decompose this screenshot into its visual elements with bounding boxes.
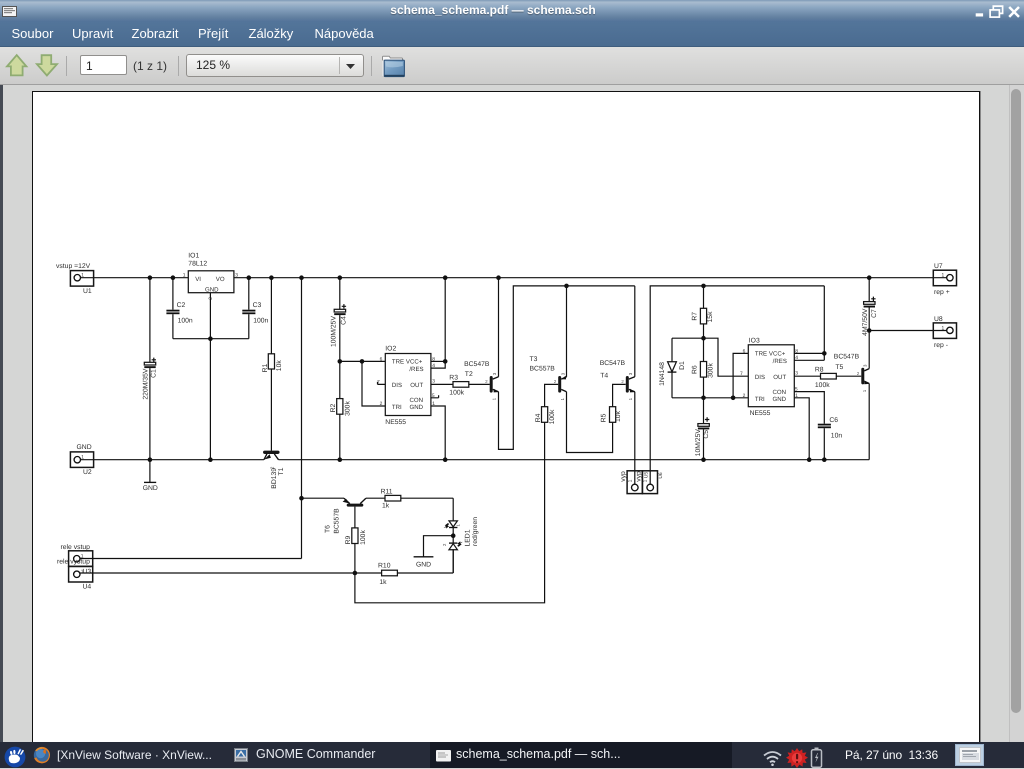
svg-text:T4: T4 bbox=[600, 372, 608, 379]
svg-text:3: 3 bbox=[560, 372, 565, 375]
wire IO1 pin2 down to GND rail bbox=[209, 293, 211, 460]
capacitor C1 220M/35V electrolytic bbox=[143, 278, 158, 460]
resistor R2 300k bbox=[330, 361, 351, 459]
svg-text:300k: 300k bbox=[707, 363, 714, 378]
svg-text:R11: R11 bbox=[381, 488, 393, 495]
voltage regulator IO1 78L12 bbox=[183, 253, 239, 300]
svg-text:6: 6 bbox=[743, 348, 746, 354]
wire U6 pin up to right sub-rail bbox=[650, 286, 824, 484]
svg-text:IO1: IO1 bbox=[188, 253, 199, 260]
svg-text:3: 3 bbox=[862, 364, 867, 367]
svg-text:TRI: TRI bbox=[392, 404, 402, 411]
wire GND rail right (T1 collector to T5 emitter) bbox=[279, 459, 870, 461]
wire T3 base to R4 bbox=[545, 384, 559, 406]
svg-text:1: 1 bbox=[862, 389, 867, 392]
svg-text:DIS: DIS bbox=[755, 374, 765, 381]
svg-text:GND: GND bbox=[773, 396, 787, 403]
svg-text:R2: R2 bbox=[330, 403, 337, 412]
resistor R4 100k bbox=[535, 407, 556, 425]
svg-text:6: 6 bbox=[380, 356, 383, 362]
connector U6 vyp bbox=[636, 471, 664, 494]
junction dot at IO1 pin2 column bbox=[208, 336, 213, 341]
wire U4 to relay sense node bbox=[80, 572, 382, 574]
svg-text:100M/25V: 100M/25V bbox=[331, 316, 338, 347]
wire IO3 pin8 VCC+ to sub-rail bbox=[794, 352, 824, 354]
svg-text:NE555: NE555 bbox=[750, 410, 771, 417]
resistor R3 100k bbox=[449, 375, 490, 397]
wire node to U8 rep- bbox=[869, 330, 947, 332]
svg-text:CON: CON bbox=[410, 397, 424, 404]
wire IO3 pin3 OUT to R8 bbox=[794, 375, 820, 377]
svg-text:R4: R4 bbox=[535, 413, 542, 422]
junction dot pin8/pin4 bbox=[822, 351, 827, 356]
wire IO3 pin1 GND to rail bbox=[794, 398, 809, 460]
svg-text:TRE: TRE bbox=[392, 359, 404, 366]
connector U7 rep + bbox=[933, 263, 956, 296]
timer IO3 NE555 bbox=[740, 338, 798, 418]
svg-text:1: 1 bbox=[627, 479, 633, 482]
svg-text:2: 2 bbox=[208, 297, 214, 300]
svg-text:VCC+: VCC+ bbox=[769, 351, 786, 358]
junction dot R7 column on sub-rail bbox=[701, 284, 706, 289]
svg-text:1k: 1k bbox=[379, 579, 387, 586]
svg-text:R3: R3 bbox=[449, 375, 458, 382]
svg-text:1: 1 bbox=[81, 455, 84, 461]
diode D1 1N4148 bbox=[659, 338, 686, 398]
capacitor C3 100n bbox=[242, 278, 268, 339]
transistor T3 BC557B bbox=[530, 356, 567, 401]
svg-text:GND: GND bbox=[410, 404, 424, 411]
wire IO2 pin1 GND down to GND rail bbox=[431, 406, 445, 460]
svg-text:U8: U8 bbox=[934, 316, 943, 323]
svg-text:100k: 100k bbox=[449, 390, 464, 397]
svg-text:1: 1 bbox=[492, 397, 497, 400]
svg-text:2: 2 bbox=[554, 379, 557, 384]
wire C2/C3 bottoms to IO1 GND pin bbox=[173, 338, 249, 340]
wire IO3 pin5 CON to C6 bbox=[794, 392, 824, 424]
svg-text:U7: U7 bbox=[934, 263, 943, 270]
svg-text:78L12: 78L12 bbox=[188, 260, 207, 267]
IO2 pin5 CON no-connect stub bbox=[431, 395, 439, 398]
svg-text:100k: 100k bbox=[549, 409, 556, 424]
svg-text:vstup =12V: vstup =12V bbox=[56, 263, 91, 270]
wire T6 emitter branch bbox=[302, 497, 345, 499]
svg-text:100k: 100k bbox=[815, 382, 830, 389]
transistor T6 BC557B bbox=[325, 498, 366, 533]
svg-text:rele vystup: rele vystup bbox=[57, 558, 90, 565]
junction dot R7/R6/D1/DIS node bbox=[701, 336, 706, 341]
svg-text:10k: 10k bbox=[276, 360, 283, 372]
svg-text:U6: U6 bbox=[658, 472, 664, 479]
svg-text:1N4148: 1N4148 bbox=[659, 362, 666, 386]
svg-text:NE555: NE555 bbox=[385, 419, 406, 426]
capacitor C7 4M7/50V electrolytic bbox=[862, 278, 878, 336]
wire T4 emitter down to U5 pin bbox=[634, 392, 636, 485]
svg-text:1: 1 bbox=[560, 397, 565, 400]
svg-text:rep +: rep + bbox=[934, 289, 950, 296]
svg-text:GND: GND bbox=[143, 485, 158, 492]
svg-text:3: 3 bbox=[235, 272, 238, 278]
junction dot R9/R10/R4 node bbox=[353, 571, 358, 576]
svg-text:1: 1 bbox=[81, 569, 84, 575]
svg-text:100n: 100n bbox=[253, 317, 268, 324]
svg-text:vyp: vyp bbox=[636, 471, 643, 482]
svg-text:GND: GND bbox=[205, 286, 219, 293]
svg-text:VO: VO bbox=[216, 276, 225, 283]
svg-text:R10: R10 bbox=[378, 563, 391, 570]
wire U3 to +12V vertical bbox=[80, 558, 302, 560]
LED1 red/green dual LED bbox=[442, 498, 479, 573]
transistor T2 BC547B bbox=[464, 361, 498, 400]
svg-text:15k: 15k bbox=[707, 311, 714, 323]
connector U4 rele vystup bbox=[69, 566, 93, 582]
svg-text:1: 1 bbox=[643, 479, 649, 482]
junction dots on GND rail bbox=[148, 457, 827, 462]
resistor R1 10k bbox=[262, 278, 283, 451]
svg-text:vyp: vyp bbox=[620, 471, 627, 482]
junction dot T6 emitter branch bbox=[299, 496, 304, 501]
svg-text:2: 2 bbox=[485, 379, 488, 384]
resistor R8 100k bbox=[815, 367, 861, 389]
wire IO2 pin3 OUT to R3 bbox=[431, 383, 453, 385]
wire GND rail left (U2 to T1 emitter) bbox=[80, 459, 264, 461]
ground symbol GND (below C1) bbox=[143, 460, 158, 492]
svg-text:300k: 300k bbox=[344, 401, 351, 416]
connector U2 GND bbox=[70, 444, 93, 476]
wire T2 collector to +12V rail bbox=[498, 278, 500, 377]
svg-text:IO3: IO3 bbox=[749, 338, 760, 345]
wire DIS node to D1 and IO3 pin7 bbox=[672, 338, 748, 376]
svg-text:2: 2 bbox=[380, 401, 383, 407]
wire TRI net D1/R6/C5 to IO3 pin2 bbox=[672, 397, 748, 399]
junction dot pin8/pin4 tie bbox=[443, 359, 448, 364]
junction dots on top rail bbox=[148, 275, 872, 280]
svg-text:1: 1 bbox=[81, 273, 84, 279]
wire T6 base to R9 bbox=[354, 507, 356, 528]
connector U3 rele vstup bbox=[69, 551, 93, 567]
svg-text:2: 2 bbox=[442, 543, 447, 546]
svg-text:OUT: OUT bbox=[410, 382, 423, 389]
svg-text:VI: VI bbox=[195, 276, 201, 283]
svg-text:2: 2 bbox=[270, 466, 275, 469]
resistor R7 15k bbox=[691, 286, 714, 338]
labels U3/U4 bbox=[57, 544, 91, 591]
svg-text:U5: U5 bbox=[643, 472, 649, 479]
junction dot T3 emitter bbox=[564, 284, 569, 289]
svg-text:GND: GND bbox=[77, 444, 92, 451]
wire T3 collector down and right to R5 bbox=[567, 392, 613, 453]
svg-text:1: 1 bbox=[628, 397, 633, 400]
svg-text:U3: U3 bbox=[83, 568, 92, 575]
svg-text:rele vstup: rele vstup bbox=[61, 544, 91, 551]
resistor R6 300k bbox=[691, 338, 714, 398]
svg-text:220M/35V: 220M/35V bbox=[143, 368, 150, 399]
svg-text:C6: C6 bbox=[829, 417, 838, 424]
ground symbol GND (LED midpoint) bbox=[414, 536, 454, 569]
svg-text:7: 7 bbox=[740, 371, 743, 377]
svg-text:/RES: /RES bbox=[409, 366, 423, 373]
svg-text:10k: 10k bbox=[615, 410, 622, 422]
svg-text:C1: C1 bbox=[150, 369, 157, 378]
svg-text:T2: T2 bbox=[465, 371, 473, 378]
svg-text:10M/25V: 10M/25V bbox=[695, 429, 702, 457]
svg-text:TRE: TRE bbox=[755, 351, 767, 358]
svg-text:U4: U4 bbox=[83, 584, 92, 591]
capacitor C2 100n bbox=[166, 278, 193, 339]
resistor R11 1k bbox=[381, 488, 454, 509]
svg-text:3: 3 bbox=[628, 372, 633, 375]
connector U5 vyp bbox=[620, 471, 649, 494]
svg-text:BC547B: BC547B bbox=[464, 361, 490, 368]
wire T5 collector up to C7/U8 node bbox=[868, 331, 870, 369]
svg-text:C2: C2 bbox=[177, 302, 186, 309]
svg-text:T1: T1 bbox=[278, 467, 285, 475]
svg-text:U1: U1 bbox=[83, 288, 92, 295]
wire T3 emitter up to sub-rail bbox=[566, 286, 568, 377]
wire +12V top rail (U1 to IO1.VI) bbox=[80, 277, 188, 279]
svg-text:R5: R5 bbox=[601, 413, 608, 422]
wire T2 emitter loop to sub-rail bbox=[499, 286, 635, 450]
wire R4 down to relay sense node bbox=[355, 422, 545, 603]
svg-text:2: 2 bbox=[857, 371, 860, 376]
wire IO2 pin2 TRI loop bbox=[362, 361, 385, 406]
svg-text:T6: T6 bbox=[325, 525, 332, 533]
svg-text:VCC+: VCC+ bbox=[406, 359, 423, 366]
wire IO3 pin6 TRE tie to TRI bbox=[733, 353, 748, 397]
wire T4 collector up to sub-rail bbox=[634, 286, 636, 377]
wire +12V vertical to T6/U3 (long) bbox=[301, 278, 303, 559]
svg-text:100k: 100k bbox=[360, 530, 367, 545]
capacitor C6 10n bbox=[818, 417, 843, 460]
svg-text:GND: GND bbox=[416, 562, 431, 569]
svg-text:C4: C4 bbox=[341, 316, 348, 325]
svg-text:R1: R1 bbox=[262, 363, 269, 372]
svg-text:T5: T5 bbox=[835, 364, 843, 371]
svg-text:1: 1 bbox=[456, 524, 461, 527]
junction dot C4/R2/TRE bbox=[338, 359, 343, 364]
wire IO2 pin6 TRE to C4/R2 node bbox=[340, 360, 386, 362]
svg-text:BC557B: BC557B bbox=[334, 508, 341, 534]
svg-text:100n: 100n bbox=[178, 317, 193, 324]
resistor R10 1k bbox=[378, 549, 453, 586]
svg-text:2: 2 bbox=[621, 379, 624, 384]
junction dots on TRI net bbox=[701, 396, 706, 401]
svg-text:10n: 10n bbox=[831, 433, 843, 440]
wire IO2 pin4 /RES up to +12V rail bbox=[431, 278, 445, 368]
svg-text:IO2: IO2 bbox=[385, 346, 396, 353]
wire T5 emitter down to GND rail bbox=[868, 384, 870, 460]
svg-text:1: 1 bbox=[942, 273, 945, 279]
svg-text:R6: R6 bbox=[691, 365, 698, 374]
svg-text:BC547B: BC547B bbox=[600, 360, 626, 367]
resistor R9 100k bbox=[345, 528, 367, 573]
wire T6 collector to R11 bbox=[366, 497, 385, 499]
svg-text:BC547B: BC547B bbox=[834, 354, 860, 361]
wire R5 top to T4 base bbox=[613, 384, 626, 406]
junction dot TRE/TRI tie bbox=[360, 359, 365, 364]
resistor R5 10k bbox=[601, 407, 622, 423]
svg-text:C7: C7 bbox=[871, 309, 878, 318]
svg-text:C5: C5 bbox=[703, 430, 710, 439]
capacitor C4 100M/25V electrolytic bbox=[331, 278, 348, 362]
svg-text:red/green: red/green bbox=[472, 517, 479, 546]
transistor T1 BD139 bbox=[264, 452, 285, 488]
svg-text:TRI: TRI bbox=[755, 396, 765, 403]
svg-text:1k: 1k bbox=[382, 503, 390, 510]
timer IO2 NE555 bbox=[377, 346, 435, 426]
junction dot LED midpoint bbox=[451, 533, 456, 538]
IO2 pin7 DIS no-connect stub bbox=[378, 382, 386, 385]
wire IO3 pin4 /RES tie bbox=[794, 286, 824, 360]
junction dot C7/T5/U8 node bbox=[867, 328, 872, 333]
svg-text:BC557B: BC557B bbox=[530, 366, 556, 373]
svg-text:1: 1 bbox=[183, 272, 186, 278]
svg-text:DIS: DIS bbox=[392, 382, 402, 389]
svg-text:D1: D1 bbox=[679, 361, 686, 370]
svg-text:C3: C3 bbox=[253, 302, 262, 309]
connector U1 vstup =12V bbox=[56, 263, 94, 295]
svg-text:rep -: rep - bbox=[934, 342, 948, 349]
svg-text:R7: R7 bbox=[691, 312, 698, 321]
capacitor C5 10M/25V electrolytic bbox=[695, 398, 710, 460]
svg-text:U2: U2 bbox=[83, 469, 92, 476]
svg-text:3: 3 bbox=[492, 372, 497, 375]
transistor T4 BC547B bbox=[600, 360, 635, 400]
svg-text:CON: CON bbox=[773, 389, 787, 396]
wire IO2 pin8 VCC+ bbox=[431, 360, 445, 362]
svg-text:R9: R9 bbox=[345, 535, 352, 544]
svg-text:1: 1 bbox=[942, 325, 945, 331]
svg-text:/RES: /RES bbox=[773, 358, 787, 365]
connector U8 rep - bbox=[933, 316, 956, 349]
svg-text:LED1: LED1 bbox=[464, 529, 471, 546]
svg-text:R8: R8 bbox=[815, 367, 824, 374]
svg-text:2: 2 bbox=[743, 393, 746, 399]
transistor T5 BC547B bbox=[834, 354, 869, 393]
wire +12V out rail (IO1.VO to U7) bbox=[234, 277, 947, 279]
svg-text:T3: T3 bbox=[530, 356, 538, 363]
svg-text:OUT: OUT bbox=[773, 374, 786, 381]
